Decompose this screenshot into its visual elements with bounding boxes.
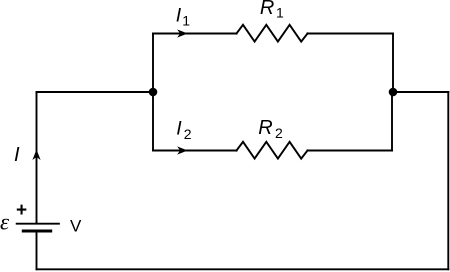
resistor R1 <box>237 25 308 42</box>
wire: branch 1 top horizontal right segment <box>308 33 394 35</box>
wire: left vertical upper (battery + to top node) <box>36 92 38 223</box>
battery cell: positive plate (long) <box>17 223 59 225</box>
wire: top node horizontal (left vertical to junction A) <box>37 91 154 93</box>
svg-text:1: 1 <box>276 4 284 20</box>
wire: branch 2 left vertical (junction A down) <box>152 92 154 151</box>
wire: left vertical lower (bottom to battery -) <box>36 231 38 269</box>
wire: branch 2 right vertical (up to junction B) <box>391 92 393 151</box>
wire: branch 2 horizontal right segment <box>308 150 393 152</box>
wire: bottom horizontal <box>37 268 449 270</box>
wire: right outer vertical <box>447 92 449 269</box>
svg-text:R: R <box>258 117 272 139</box>
svg-text:+: + <box>16 200 27 221</box>
svg-text:R: R <box>260 0 274 19</box>
wire: branch 2 horizontal left segment <box>153 150 237 152</box>
arrow: current I1 (rightward) <box>177 29 188 37</box>
svg-text:2: 2 <box>275 125 283 141</box>
wire: branch 1 right vertical (down to junction B) <box>392 34 394 93</box>
battery cell: negative plate (short thick) <box>23 230 50 233</box>
arrow: current I (upward) <box>32 150 40 161</box>
wire: branch 1 top horizontal left segment <box>153 33 237 35</box>
svg-text:V: V <box>70 217 82 236</box>
wire: junction B to right edge <box>393 91 448 93</box>
svg-text:I: I <box>176 4 182 26</box>
node A junction dot <box>149 88 158 97</box>
node B junction dot <box>389 88 398 97</box>
svg-text:I: I <box>176 118 182 140</box>
svg-text:I: I <box>14 144 20 166</box>
arrow: current I2 (rightward) <box>177 146 188 154</box>
resistor R2 <box>237 142 308 159</box>
svg-text:1: 1 <box>182 12 190 28</box>
svg-text:ε: ε <box>0 210 10 235</box>
wire: branch 1 left vertical (junction A up) <box>152 34 154 93</box>
svg-text:2: 2 <box>184 126 192 142</box>
